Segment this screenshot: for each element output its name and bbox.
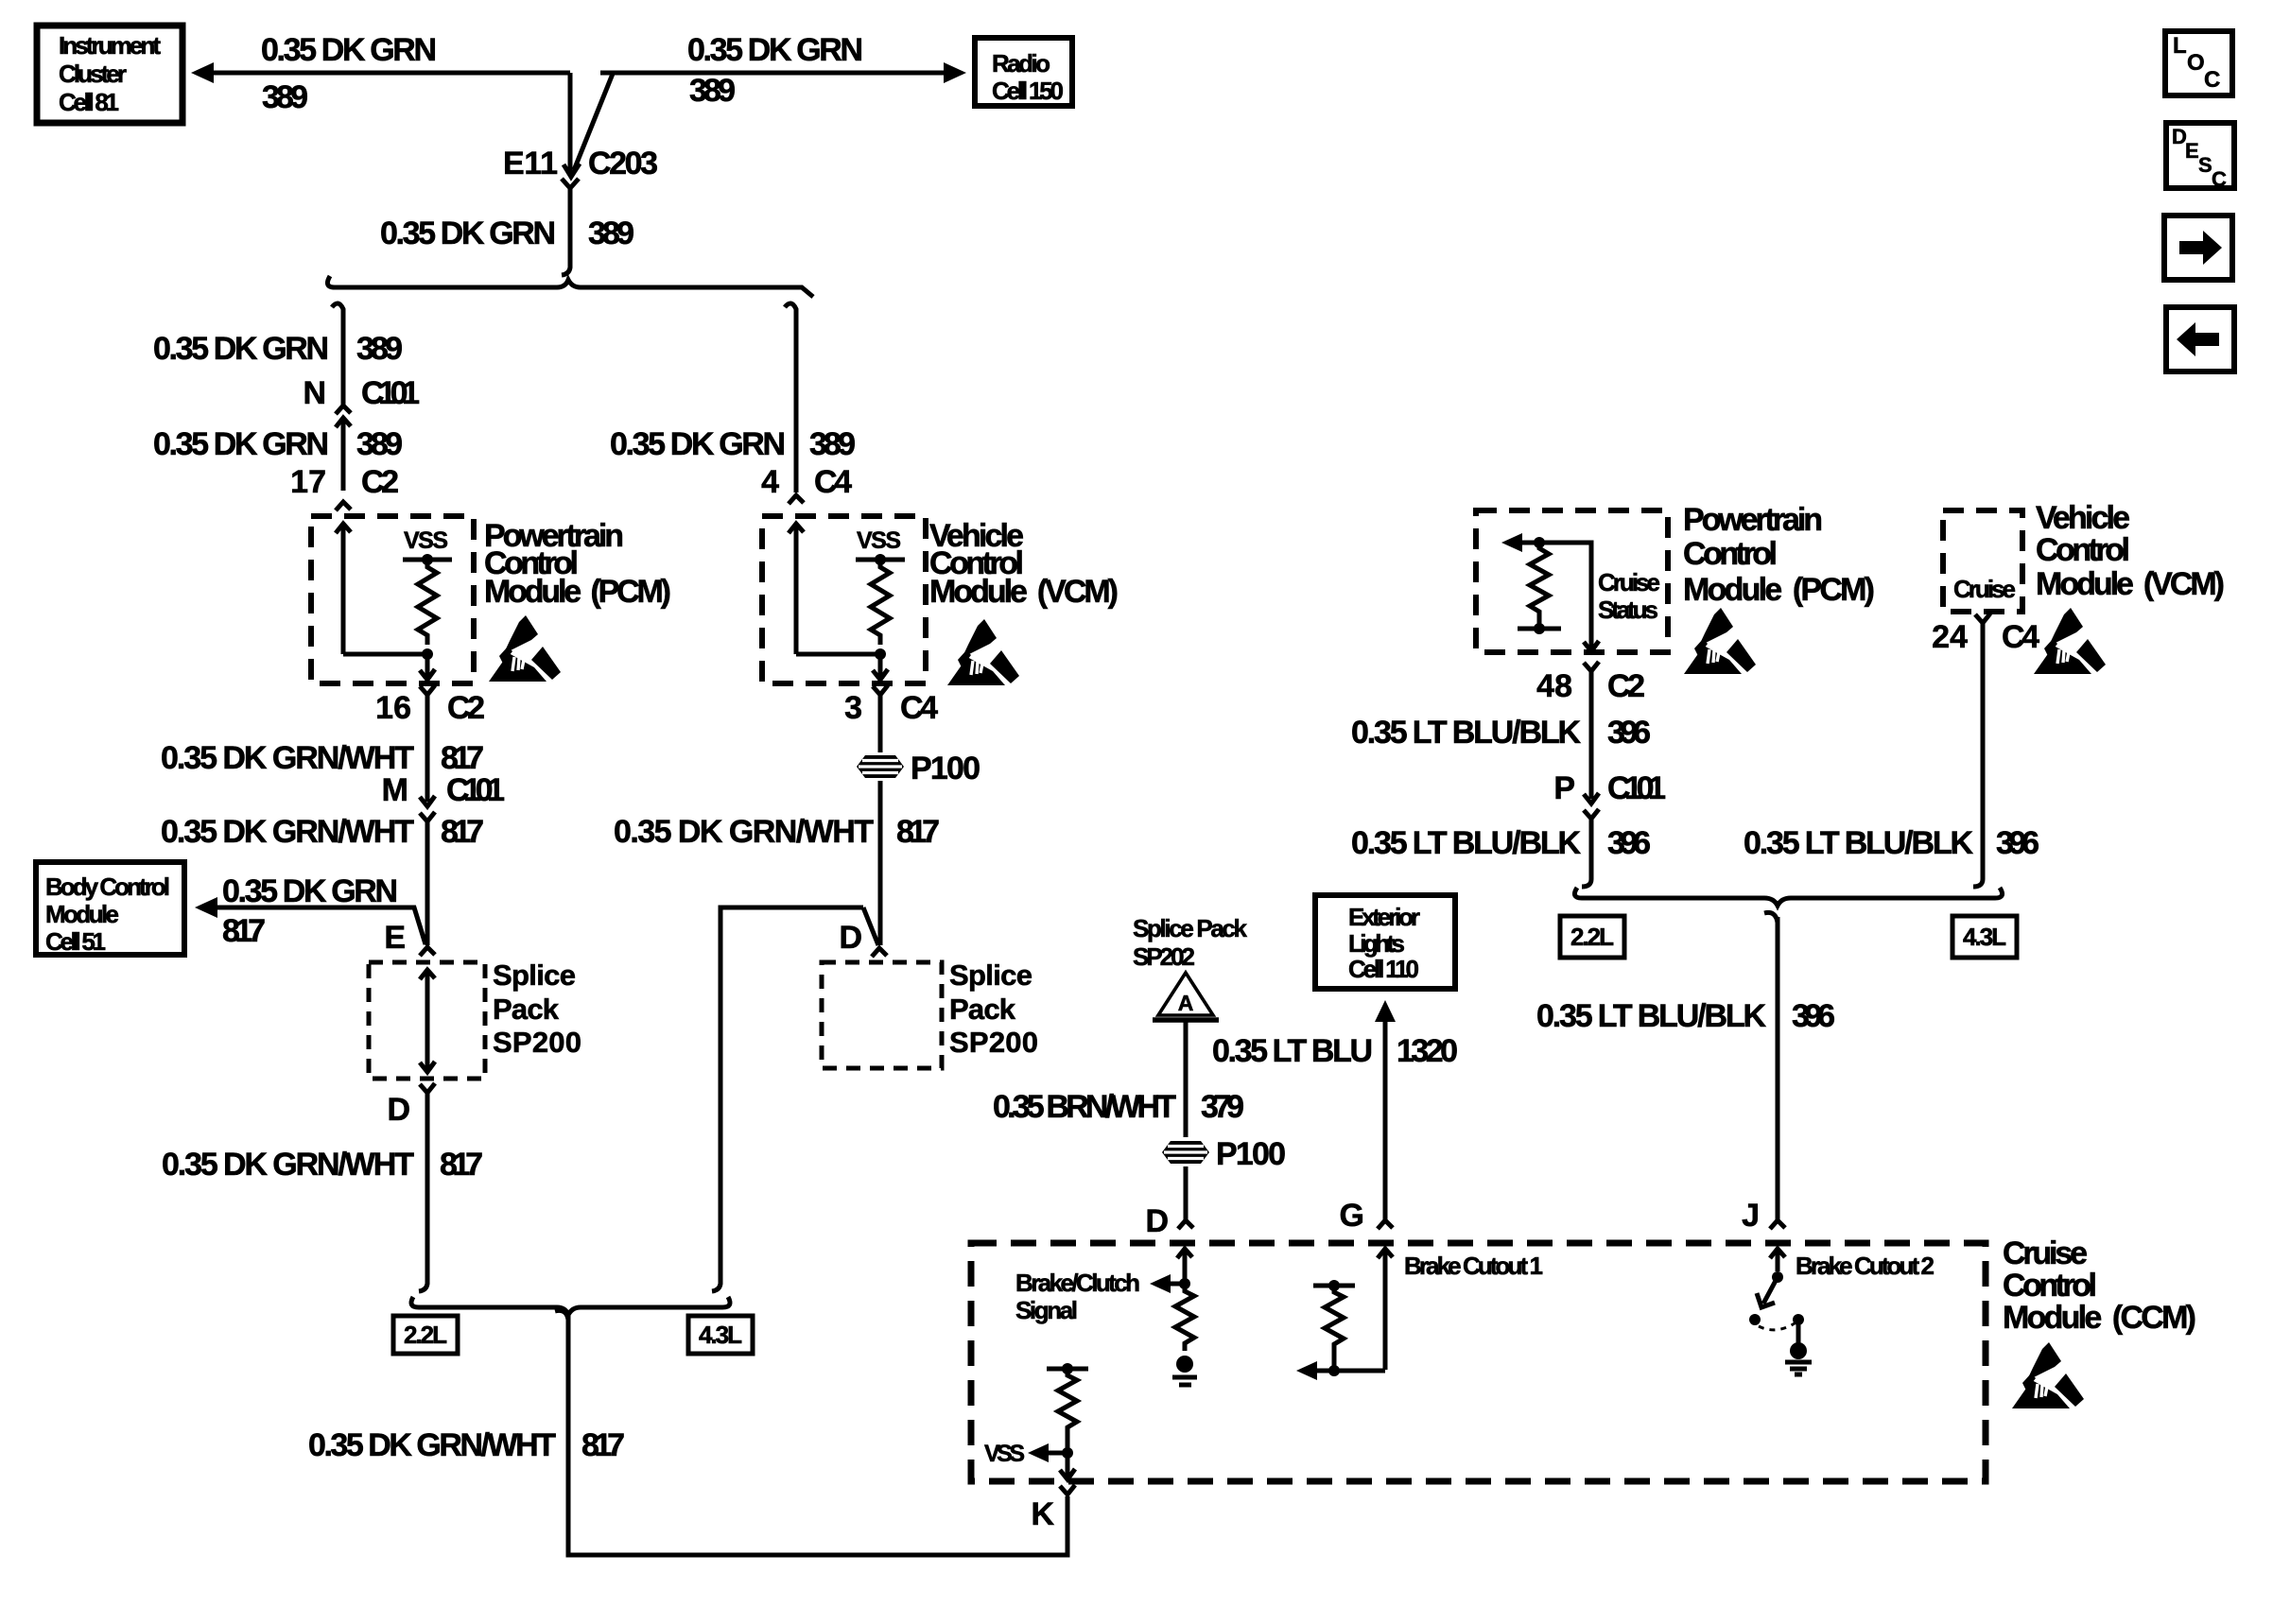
connector pin 4 chevron [789, 495, 804, 504]
svg-text:16: 16 [375, 690, 411, 726]
wire diagonal into right splice D [863, 907, 878, 945]
junction dot VSS bottom [1062, 1447, 1073, 1459]
arrowhead into Radio [944, 62, 966, 83]
ESD symbol VCM left [947, 619, 1019, 685]
2.2L box (right) [1560, 916, 1624, 958]
VCM module dashed box [762, 516, 926, 683]
junction dot VSS rail [1062, 1363, 1073, 1374]
svg-text:C: C [2204, 67, 2220, 93]
svg-text:2.2L: 2.2L [404, 1321, 447, 1349]
svg-text:Module (VCM): Module (VCM) [2036, 566, 2225, 602]
connector D chevron (right SP200) [872, 948, 887, 957]
svg-text:0.35 DK GRN/WHT: 0.35 DK GRN/WHT [308, 1427, 556, 1463]
svg-text:C2: C2 [1607, 668, 1645, 704]
wire pin 3 to P100 [878, 695, 883, 752]
wire to Radio [600, 71, 947, 76]
VCM internal resistor [871, 560, 890, 645]
Splice Pack SP200 left dashed box [369, 962, 485, 1079]
connector pin 17 chevron [336, 502, 351, 510]
svg-text:2.2L: 2.2L [1570, 923, 1614, 951]
LOC legend box [2165, 31, 2232, 95]
svg-text:SP200: SP200 [493, 1026, 581, 1059]
switch contact right dot [1793, 1314, 1804, 1325]
junction dot top of VCM resistor [875, 554, 886, 565]
svg-text:M: M [382, 772, 408, 808]
svg-text:Cruise: Cruise [1953, 575, 2016, 603]
connector P C101 chevrons [1584, 793, 1599, 819]
PCM internal wire loop [343, 652, 427, 657]
Radio Cell 150 box [975, 38, 1072, 106]
junction dot bottom of VCM resistor [875, 648, 886, 660]
arrow up into VCM pin 4 [789, 524, 804, 654]
junction dot CCM D [1179, 1278, 1190, 1289]
svg-text:0.35 DK GRN: 0.35 DK GRN [153, 331, 329, 367]
wire 48 to P C101 [1589, 671, 1594, 799]
ESD symbol PCM right [1684, 608, 1756, 674]
svg-text:O: O [2187, 50, 2205, 76]
svg-text:Exterior: Exterior [1348, 903, 1420, 931]
wire VSS arrow stem [1045, 1451, 1067, 1456]
wire brace to CCM J [1764, 912, 1778, 1222]
Brake Cutout 1 top rail [1313, 1284, 1355, 1288]
wire pin 16 to M C101 [425, 695, 430, 802]
wire P100 to CCM D [1184, 1166, 1189, 1219]
svg-text:0.35 DK GRN/WHT: 0.35 DK GRN/WHT [162, 1147, 414, 1183]
svg-text:0.35 DK GRN: 0.35 DK GRN [380, 216, 556, 251]
P100 grommet (CCM branch) [1162, 1141, 1209, 1164]
svg-text:817: 817 [441, 740, 484, 776]
arrowhead down at C203 [564, 164, 580, 177]
svg-text:1320: 1320 [1397, 1033, 1458, 1069]
svg-text:389: 389 [356, 331, 403, 367]
VSS top rail (CCM) [1047, 1367, 1088, 1372]
plunger stem (Brake Cutout 2) [1796, 1320, 1801, 1346]
svg-text:C203: C203 [588, 146, 658, 181]
switch pivot dot (Brake Cutout 2) [1772, 1271, 1783, 1283]
wire right branch (brace to 4 C4) [785, 303, 796, 492]
svg-text:0.35 DK GRN: 0.35 DK GRN [687, 32, 863, 68]
Cruise Status resistor [1530, 543, 1549, 629]
svg-text:Cruise: Cruise [1598, 568, 1660, 596]
arrow up into CCM G [1378, 1249, 1393, 1370]
engine splice brace (left bottom) [411, 1297, 730, 1315]
connector D chevron (left SP200) [420, 1083, 435, 1093]
svg-text:Brake/Clutch: Brake/Clutch [1015, 1269, 1140, 1297]
svg-text:396: 396 [1607, 715, 1651, 751]
VCM internal wire loop [796, 652, 880, 657]
svg-text:Radio: Radio [992, 49, 1050, 78]
svg-text:C2: C2 [361, 464, 399, 500]
svg-text:Splice Pack: Splice Pack [1133, 914, 1248, 942]
connector G chevron (CCM) [1378, 1220, 1393, 1229]
svg-text:0.35 DK GRN/WHT: 0.35 DK GRN/WHT [161, 814, 414, 850]
connector D chevron (CCM) [1178, 1220, 1193, 1229]
junction dot Brake Cutout 1 rail [1328, 1280, 1340, 1291]
VSS resistor (CCM) [1058, 1369, 1077, 1453]
svg-text:Cell 150: Cell 150 [992, 77, 1064, 105]
DESC legend box [2166, 123, 2234, 191]
svg-text:G: G [1340, 1198, 1364, 1234]
ESD symbol PCM left [489, 615, 561, 682]
svg-text:SP200: SP200 [949, 1026, 1038, 1059]
Cruise Control Module dashed box [971, 1243, 1986, 1481]
svg-text:4.3L: 4.3L [1963, 923, 2006, 951]
arrow down to PCM pin 16 [420, 654, 435, 680]
junction dot top of PCM resistor [422, 554, 433, 565]
svg-text:Powertrain: Powertrain [1683, 502, 1823, 538]
svg-text:389: 389 [689, 73, 736, 109]
right arrow legend box [2164, 216, 2232, 280]
junction dot top of Cruise Status resistor [1534, 537, 1545, 548]
ground lines (Brake Cutout 2) [1785, 1362, 1812, 1374]
wire Brake/Clutch Signal arrow stem [1167, 1282, 1185, 1287]
svg-text:0.35 DK GRN: 0.35 DK GRN [222, 873, 398, 909]
svg-text:4.3L: 4.3L [699, 1321, 742, 1349]
svg-text:E11: E11 [503, 146, 558, 181]
arrowhead into Exterior Lights [1375, 1000, 1396, 1022]
svg-text:SP202: SP202 [1133, 942, 1195, 971]
cruise splice brace (right) [1574, 888, 2002, 906]
svg-text:0.35 LT BLU/BLK: 0.35 LT BLU/BLK [1536, 998, 1766, 1034]
svg-text:Pack: Pack [949, 993, 1016, 1026]
svg-text:P100: P100 [911, 751, 980, 786]
svg-text:Cell 110: Cell 110 [1348, 955, 1419, 983]
Brake Cutout 1 resistor [1325, 1286, 1344, 1371]
svg-text:Instrument: Instrument [59, 31, 161, 60]
ESD symbol CCM [2012, 1342, 2084, 1408]
svg-text:Cruise: Cruise [2003, 1235, 2088, 1271]
svg-text:379: 379 [1201, 1089, 1244, 1125]
junction dot Brake Cutout 1 bottom [1328, 1365, 1340, 1376]
svg-text:389: 389 [262, 79, 308, 115]
CCM D resistor [1175, 1284, 1194, 1351]
left arrow legend box [2166, 307, 2234, 371]
Exterior Lights Cell 110 box [1315, 895, 1455, 989]
connector N C101 chevrons [336, 406, 351, 427]
svg-text:0.35 DK GRN/WHT: 0.35 DK GRN/WHT [614, 814, 874, 850]
svg-text:S: S [2198, 153, 2212, 177]
svg-text:E: E [2185, 139, 2199, 163]
svg-text:817: 817 [896, 814, 940, 850]
svg-text:Cell 81: Cell 81 [59, 88, 119, 116]
svg-text:Module (PCM): Module (PCM) [1683, 572, 1875, 608]
svg-text:VSS: VSS [857, 527, 901, 554]
svg-text:396: 396 [1996, 825, 2039, 861]
svg-text:Module: Module [45, 900, 119, 928]
svg-text:A: A [1178, 991, 1194, 1015]
wire to Body Control Module [214, 907, 425, 944]
svg-text:389: 389 [588, 216, 634, 251]
switch dashed arc [1759, 1323, 1795, 1330]
svg-text:Signal: Signal [1015, 1296, 1078, 1324]
wire to Instrument Cluster [210, 71, 570, 76]
splice SP200 left internal double arrow [420, 970, 435, 1072]
Cruise Status bottom rail [1518, 627, 1561, 631]
svg-text:3: 3 [844, 690, 862, 726]
svg-text:0.35 LT BLU: 0.35 LT BLU [1212, 1033, 1373, 1069]
svg-text:396: 396 [1792, 998, 1835, 1034]
wire P C101 to brace [1582, 819, 1591, 887]
PCM module dashed box [311, 516, 474, 683]
ESD symbol VCM right [2034, 608, 2106, 674]
arrow up into PCM pin 17 [336, 524, 351, 654]
svg-text:Brake Cutout 2: Brake Cutout 2 [1796, 1252, 1935, 1280]
arrowhead into Body Control Module [195, 897, 217, 918]
svg-text:Module (PCM): Module (PCM) [484, 574, 671, 610]
svg-text:Cluster: Cluster [59, 60, 127, 88]
wire D to engine brace [419, 1093, 427, 1291]
svg-text:P: P [1553, 770, 1575, 806]
SP202 triangle base [1153, 1017, 1219, 1023]
svg-text:24: 24 [1932, 619, 1968, 655]
arrowhead Brake Cutout 1 [1296, 1361, 1317, 1380]
svg-text:817: 817 [441, 814, 484, 850]
ground ball CCM D resistor [1176, 1356, 1193, 1373]
Cruise Status dashed box [1476, 510, 1668, 652]
switch contact left dot [1749, 1314, 1761, 1325]
svg-text:D: D [839, 920, 862, 956]
Splice Pack SP200 right dashed box [822, 962, 942, 1068]
wire M C101 to splice E [425, 821, 430, 945]
svg-text:K: K [1031, 1496, 1054, 1532]
PCM internal resistor [418, 560, 437, 645]
svg-text:P100: P100 [1216, 1136, 1286, 1172]
Cruise Status internal wire [1518, 543, 1591, 648]
svg-text:389: 389 [356, 426, 403, 462]
switch arm (Brake Cutout 2) [1757, 1277, 1778, 1307]
splice pack SP202 triangle [1158, 973, 1213, 1015]
connector M C101 chevrons (arrow down + cup) [420, 796, 435, 821]
svg-text:C: C [2212, 167, 2227, 191]
wire vertical from junction to C203 [568, 73, 573, 174]
svg-text:E: E [384, 920, 406, 956]
svg-text:L: L [2173, 33, 2187, 59]
svg-text:817: 817 [581, 1427, 625, 1463]
arrowhead Brake/Clutch Signal [1150, 1274, 1171, 1293]
connector pin 3 chevron [873, 685, 888, 695]
svg-text:Control: Control [2003, 1268, 2097, 1304]
svg-text:Brake Cutout 1: Brake Cutout 1 [1404, 1252, 1543, 1280]
svg-text:0.35 LT BLU/BLK: 0.35 LT BLU/BLK [1744, 825, 1973, 861]
2.2L box (left) [393, 1316, 458, 1354]
svg-text:Splice: Splice [949, 959, 1032, 992]
svg-text:C4: C4 [900, 690, 938, 726]
svg-text:Pack: Pack [493, 993, 560, 1026]
junction dot bottom of Cruise Status resistor [1534, 623, 1545, 634]
svg-text:D: D [1145, 1203, 1169, 1239]
junction dot bottom of PCM resistor [422, 648, 433, 660]
Body Control Module Cell 51 box [36, 862, 184, 956]
connector C203 chevron [562, 179, 579, 188]
ground ball (Brake Cutout 2) [1790, 1342, 1807, 1359]
connector K chevron [1060, 1485, 1075, 1494]
arrow up into CCM D [1177, 1249, 1192, 1284]
splice bus brace (top) [327, 276, 813, 297]
svg-text:J: J [1742, 1198, 1760, 1234]
svg-text:0.35 DK GRN/WHT: 0.35 DK GRN/WHT [161, 740, 414, 776]
P100 grommet (VCM branch) [857, 755, 904, 778]
svg-text:C4: C4 [814, 464, 852, 500]
arrow down out of Cruise Status [1584, 641, 1599, 651]
svg-text:17: 17 [290, 464, 326, 500]
wire 4.3L branch to engine brace [712, 907, 863, 1291]
wire Brake Cutout 1 bottom [1313, 1369, 1385, 1373]
svg-text:D: D [387, 1092, 410, 1128]
svg-text:Module (VCM): Module (VCM) [929, 574, 1119, 610]
wire diagonal into C203 [574, 74, 613, 170]
wire SP202 to P100 [1184, 1020, 1189, 1137]
connector J chevron (CCM) [1770, 1220, 1785, 1229]
arrow down to VCM pin 3 [873, 654, 888, 680]
svg-text:389: 389 [809, 426, 856, 462]
svg-text:4: 4 [761, 464, 779, 500]
svg-text:Module (CCM): Module (CCM) [2003, 1300, 2196, 1336]
wire left branch (brace to N C101) [332, 303, 343, 405]
wire P100 to splice D [878, 781, 883, 945]
connector pin 16 chevron [420, 685, 435, 695]
svg-text:0.35 BRN/WHT: 0.35 BRN/WHT [993, 1089, 1176, 1125]
svg-text:C101: C101 [1607, 770, 1666, 806]
svg-text:0.35 LT BLU/BLK: 0.35 LT BLU/BLK [1351, 715, 1581, 751]
arrowhead VSS (CCM) [1028, 1443, 1049, 1462]
svg-text:C101: C101 [446, 772, 505, 808]
svg-text:N: N [303, 375, 326, 411]
PCM internal top rail [403, 558, 452, 562]
wire engine brace to CCM K [555, 1310, 1067, 1555]
svg-text:C4: C4 [2002, 619, 2039, 655]
svg-text:Lights: Lights [1348, 929, 1405, 958]
4.3L box (left) [688, 1316, 753, 1354]
svg-text:0.35 DK GRN: 0.35 DK GRN [153, 426, 329, 462]
svg-text:396: 396 [1607, 825, 1651, 861]
svg-text:817: 817 [222, 913, 266, 949]
svg-text:817: 817 [440, 1147, 483, 1183]
wire C203 to splice brace [562, 188, 570, 275]
ground lines CCM D resistor [1172, 1377, 1197, 1385]
svg-text:Body Control: Body Control [45, 872, 170, 901]
svg-text:Vehicle: Vehicle [2036, 500, 2130, 536]
arrow up into CCM J [1770, 1249, 1785, 1271]
connector E chevron [420, 947, 435, 956]
wire N C101 to pin 17 [341, 418, 346, 491]
wire Exterior Lights to CCM G [1383, 1019, 1388, 1219]
svg-text:C2: C2 [447, 690, 485, 726]
svg-text:48: 48 [1536, 668, 1572, 704]
connector 24 chevron [1975, 613, 1990, 623]
Cruise dashed box (VCM right) [1943, 510, 2022, 612]
svg-text:0.35 DK GRN: 0.35 DK GRN [261, 32, 437, 68]
svg-text:VSS: VSS [984, 1441, 1025, 1467]
svg-text:C101: C101 [361, 375, 420, 411]
arrow down to CCM K [1060, 1453, 1075, 1479]
svg-text:0.35 LT BLU/BLK: 0.35 LT BLU/BLK [1351, 825, 1581, 861]
wire 24 to brace [1973, 623, 1983, 887]
svg-text:Control: Control [1683, 536, 1778, 572]
svg-text:Cell 51: Cell 51 [45, 927, 106, 956]
VCM internal top rail [856, 558, 905, 562]
Instrument Cluster Cell 81 box [37, 26, 182, 123]
4.3L box (right) [1952, 916, 2017, 958]
svg-text:0.35 DK GRN: 0.35 DK GRN [610, 426, 786, 462]
svg-text:Control: Control [2036, 532, 2130, 568]
arrowhead Cruise Status internal [1501, 533, 1522, 552]
connector 48 chevron [1584, 662, 1599, 671]
arrowhead into Instrument Cluster [191, 62, 214, 83]
svg-text:Splice: Splice [493, 959, 576, 992]
svg-text:VSS: VSS [404, 527, 448, 554]
svg-text:Status: Status [1598, 596, 1658, 624]
